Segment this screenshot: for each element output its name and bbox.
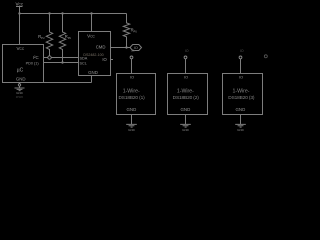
ground symbol left: [15, 88, 25, 91]
pin stub IO unconnected: [111, 59, 114, 61]
wire GND stub slave 2: [185, 115, 187, 125]
net flag IO hexagon: [130, 45, 142, 51]
1-wire slave 3: [223, 49, 263, 132]
1-wire slave 2: [168, 49, 208, 132]
wire chip Vcc stem: [91, 14, 93, 32]
svg-text:SDA: SDA: [80, 56, 88, 60]
svg-text:GND: GND: [182, 128, 190, 132]
terminal circle slave 1: [130, 56, 133, 59]
resistor R1 (SDA pull-up): [46, 14, 52, 58]
wire CMD/1-wire bus: [111, 47, 131, 49]
svg-text:DS18B20 (1): DS18B20 (1): [118, 95, 145, 101]
svg-text:µC: µC: [17, 68, 24, 74]
svg-text:DS18B20 (3): DS18B20 (3): [228, 95, 255, 101]
ground symbol slave 2: [180, 124, 191, 127]
svg-text:IO: IO: [239, 75, 243, 80]
svg-text:GND: GND: [181, 107, 191, 112]
svg-text:IO: IO: [102, 57, 107, 62]
svg-text:1-Wire-: 1-Wire-: [232, 89, 249, 95]
resistor R3 (1-wire pull-up): [123, 14, 129, 48]
svg-text:1-Wire-: 1-Wire-: [177, 89, 194, 95]
svg-text:IO: IO: [185, 49, 189, 53]
junction dot R3 on bus: [125, 46, 127, 48]
svg-text:DS18B20 (2): DS18B20 (2): [173, 95, 200, 101]
svg-text:GND: GND: [237, 128, 245, 132]
microcontroller U1 box: [3, 45, 44, 83]
svg-text:VCC: VCC: [16, 46, 24, 51]
svg-text:CMD: CMD: [96, 44, 106, 49]
svg-text:1-Wire-: 1-Wire-: [123, 89, 140, 95]
ground symbol slave 3: [235, 124, 246, 127]
wire IO stub slave 1: [131, 59, 133, 74]
wire chip GND stem: [91, 76, 93, 83]
wire GND rail: [44, 82, 92, 84]
box slave 2: [168, 74, 208, 115]
svg-text:GND: GND: [236, 107, 246, 112]
1-wire slave 1: [117, 49, 156, 132]
svg-text:PD0 (1): PD0 (1): [26, 62, 40, 66]
svg-text:IO: IO: [240, 49, 244, 53]
svg-text:SCL: SCL: [80, 62, 87, 66]
wire SCL (uC to bridge): [44, 62, 79, 64]
wire top VCC rail: [20, 13, 127, 15]
svg-text:I²C: I²C: [33, 55, 39, 60]
wire ground stub left: [19, 83, 21, 89]
box slave 1: [117, 74, 156, 115]
svg-text:GND: GND: [128, 128, 136, 132]
box slave 3: [223, 74, 263, 115]
wire GND stub slave 3: [240, 115, 242, 125]
svg-text:GND: GND: [16, 76, 26, 81]
node circle ground left: [18, 84, 20, 86]
wire Vcc stem to uC: [19, 7, 21, 45]
svg-text:GND: GND: [88, 70, 98, 75]
junction dot R2 on SCL: [61, 61, 63, 63]
wire IO stub slave 2: [185, 59, 187, 74]
svg-text:#PWR: #PWR: [16, 96, 23, 99]
svg-text:IO: IO: [184, 75, 188, 80]
svg-text:IO: IO: [131, 49, 135, 53]
wire GND stub slave 1: [131, 115, 133, 125]
svg-text:GND: GND: [16, 91, 24, 95]
svg-text:VCC: VCC: [87, 34, 95, 39]
terminal circle slave 2: [184, 56, 187, 59]
terminal circle slave 3: [239, 56, 242, 59]
svg-text:IO: IO: [130, 75, 134, 80]
wire SDA (uC to bridge): [44, 57, 79, 59]
wire IO stub slave 3: [240, 59, 242, 74]
junction dots on VCC rail: [18, 12, 127, 63]
bridge chip U2 box: [79, 32, 111, 76]
resistor R2 (SCL pull-up): [59, 14, 65, 63]
svg-text:VCC: VCC: [15, 2, 23, 7]
svg-text:GND: GND: [127, 107, 137, 112]
ground symbol slave 1: [126, 124, 137, 127]
node more-slaves mark: [264, 55, 267, 58]
power flag VCC top-left: [16, 6, 23, 8]
node circle R1/SDA: [48, 56, 51, 59]
